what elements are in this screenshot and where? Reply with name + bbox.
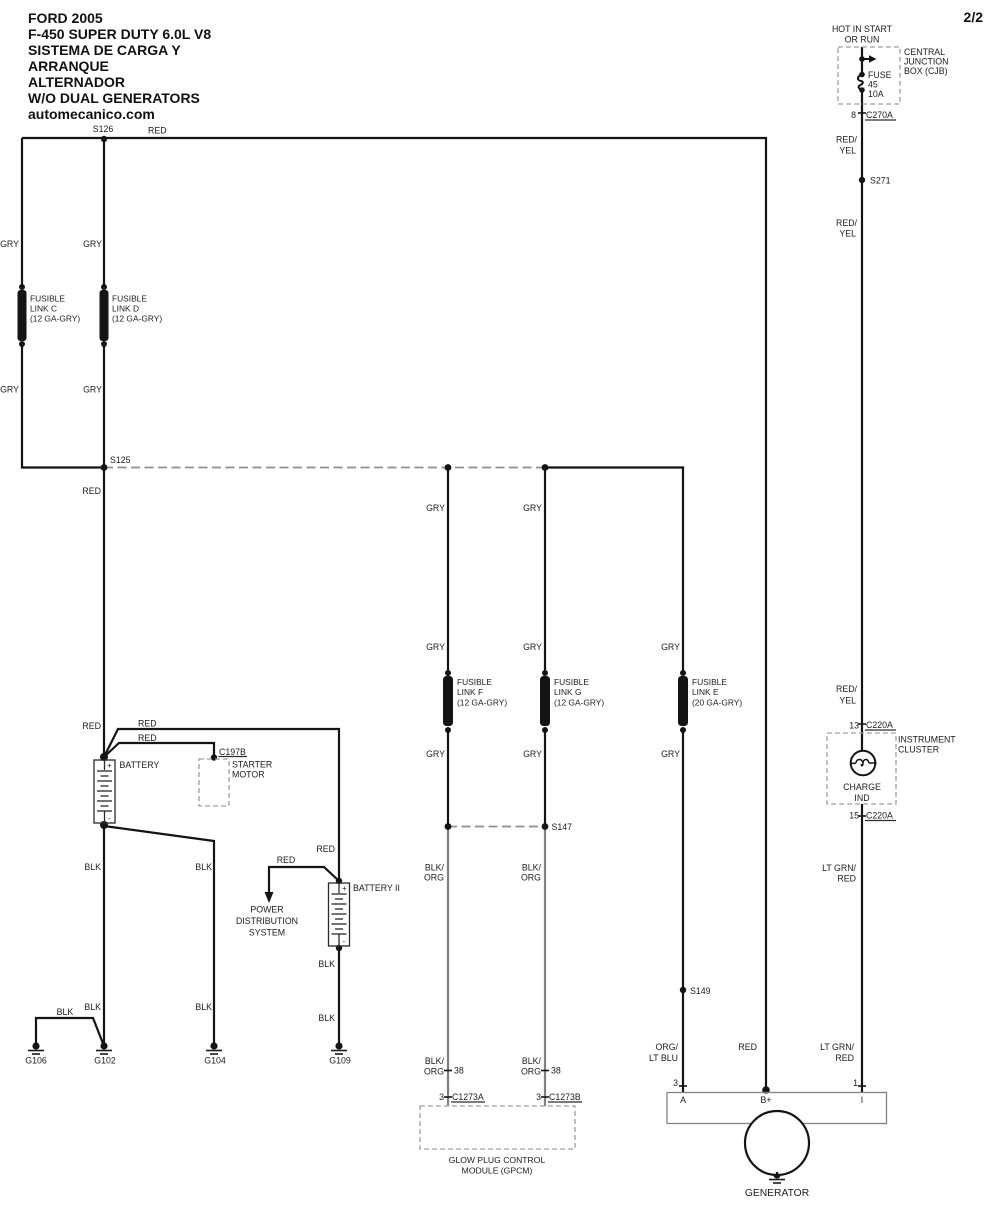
svg-text:GRY: GRY — [523, 503, 542, 513]
svg-text:10A: 10A — [868, 89, 884, 99]
svg-text:ALTERNADOR: ALTERNADOR — [28, 74, 125, 90]
svg-text:(12 GA-GRY): (12 GA-GRY) — [112, 314, 162, 324]
svg-text:G104: G104 — [204, 1056, 226, 1066]
svg-text:(20 GA-GRY): (20 GA-GRY) — [692, 698, 742, 708]
svg-text:45: 45 — [868, 80, 878, 90]
svg-text:(12 GA-GRY): (12 GA-GRY) — [30, 314, 80, 324]
svg-text:YEL: YEL — [839, 146, 856, 156]
svg-text:GRY: GRY — [661, 749, 680, 759]
svg-text:S271: S271 — [870, 176, 891, 186]
svg-text:(12 GA-GRY): (12 GA-GRY) — [554, 698, 604, 708]
svg-text:FUSIBLE: FUSIBLE — [30, 294, 65, 304]
svg-text:RED: RED — [837, 874, 856, 884]
svg-text:GRY: GRY — [426, 749, 445, 759]
svg-text:GRY: GRY — [0, 239, 19, 249]
svg-text:S149: S149 — [690, 986, 711, 996]
svg-text:GRY: GRY — [426, 503, 445, 513]
svg-text:BATTERY: BATTERY — [120, 760, 160, 770]
svg-text:GLOW PLUG CONTROL: GLOW PLUG CONTROL — [449, 1155, 546, 1165]
svg-text:G109: G109 — [329, 1056, 351, 1066]
svg-text:S126: S126 — [93, 124, 114, 134]
svg-text:ORG: ORG — [521, 1067, 541, 1077]
svg-text:INSTRUMENT: INSTRUMENT — [898, 735, 956, 745]
svg-text:BLK: BLK — [318, 1013, 335, 1023]
svg-text:W/O DUAL GENERATORS: W/O DUAL GENERATORS — [28, 90, 200, 106]
svg-text:GRY: GRY — [83, 385, 102, 395]
svg-text:F-450 SUPER DUTY 6.0L V8: F-450 SUPER DUTY 6.0L V8 — [28, 26, 211, 42]
svg-text:FUSE: FUSE — [868, 70, 892, 80]
svg-text:BLK/: BLK/ — [425, 863, 445, 873]
svg-text:3: 3 — [536, 1092, 541, 1102]
svg-text:LT BLU: LT BLU — [649, 1053, 678, 1063]
svg-text:BLK: BLK — [195, 1002, 212, 1012]
svg-text:SYSTEM: SYSTEM — [249, 928, 285, 938]
svg-text:CHARGE: CHARGE — [843, 782, 881, 792]
svg-text:G106: G106 — [25, 1056, 47, 1066]
svg-text:GRY: GRY — [83, 239, 102, 249]
svg-text:OR RUN: OR RUN — [845, 35, 880, 45]
svg-text:CLUSTER: CLUSTER — [898, 745, 939, 755]
svg-text:RED: RED — [138, 719, 157, 729]
svg-text:BLK: BLK — [84, 1002, 101, 1012]
svg-text:YEL: YEL — [839, 696, 856, 706]
svg-text:LT GRN/: LT GRN/ — [820, 1042, 854, 1052]
svg-text:G102: G102 — [94, 1056, 116, 1066]
svg-text:BOX (CJB): BOX (CJB) — [904, 66, 948, 76]
svg-text:RED: RED — [148, 126, 167, 136]
svg-text:C197B: C197B — [219, 747, 246, 757]
svg-text:FUSIBLE: FUSIBLE — [554, 677, 589, 687]
svg-text:S147: S147 — [552, 822, 573, 832]
svg-text:LINK F: LINK F — [457, 687, 483, 697]
svg-text:3: 3 — [673, 1078, 678, 1088]
svg-text:BLK: BLK — [57, 1007, 74, 1017]
svg-text:(12 GA-GRY): (12 GA-GRY) — [457, 698, 507, 708]
svg-text:RED: RED — [316, 844, 335, 854]
svg-text:POWER: POWER — [250, 905, 283, 915]
svg-text:GRY: GRY — [661, 642, 680, 652]
svg-text:RED: RED — [835, 1053, 854, 1063]
svg-text:LT GRN/: LT GRN/ — [822, 863, 856, 873]
svg-text:DISTRIBUTION: DISTRIBUTION — [236, 916, 298, 926]
svg-text:ORG: ORG — [424, 873, 444, 883]
svg-text:IND: IND — [854, 793, 869, 803]
svg-text:GENERATOR: GENERATOR — [745, 1188, 809, 1199]
svg-text:C1273B: C1273B — [549, 1092, 581, 1102]
svg-text:FUSIBLE: FUSIBLE — [112, 294, 147, 304]
svg-text:S125: S125 — [110, 455, 131, 465]
svg-text:-: - — [343, 937, 346, 946]
svg-text:FORD 2005: FORD 2005 — [28, 10, 103, 26]
svg-text:CENTRAL: CENTRAL — [904, 47, 945, 57]
svg-text:YEL: YEL — [839, 229, 856, 239]
svg-text:RED: RED — [138, 733, 157, 743]
svg-text:BLK/: BLK/ — [425, 1056, 445, 1066]
svg-text:I: I — [861, 1095, 863, 1105]
svg-text:GRY: GRY — [426, 642, 445, 652]
svg-text:RED: RED — [82, 721, 101, 731]
svg-text:LINK D: LINK D — [112, 304, 139, 314]
svg-text:BLK: BLK — [84, 862, 101, 872]
svg-text:ORG: ORG — [424, 1067, 444, 1077]
svg-text:BLK/: BLK/ — [522, 863, 542, 873]
svg-text:+: + — [342, 884, 347, 893]
svg-text:RED/: RED/ — [836, 684, 858, 694]
svg-text:FUSIBLE: FUSIBLE — [457, 677, 492, 687]
svg-text:38: 38 — [454, 1066, 464, 1076]
svg-text:SISTEMA DE CARGA Y: SISTEMA DE CARGA Y — [28, 42, 181, 58]
svg-text:A: A — [680, 1095, 686, 1105]
svg-text:RED: RED — [82, 486, 101, 496]
svg-text:3: 3 — [439, 1092, 444, 1102]
svg-text:BLK: BLK — [318, 959, 335, 969]
svg-text:LINK G: LINK G — [554, 687, 581, 697]
svg-text:MODULE (GPCM): MODULE (GPCM) — [462, 1166, 533, 1176]
svg-text:LINK E: LINK E — [692, 687, 719, 697]
svg-text:STARTER: STARTER — [232, 760, 272, 770]
svg-text:BLK/: BLK/ — [522, 1056, 542, 1066]
svg-text:-: - — [108, 814, 111, 823]
svg-text:38: 38 — [551, 1066, 561, 1076]
svg-text:FUSIBLE: FUSIBLE — [692, 677, 727, 687]
svg-text:B+: B+ — [760, 1095, 771, 1105]
svg-text:LINK C: LINK C — [30, 304, 57, 314]
svg-text:JUNCTION: JUNCTION — [904, 57, 948, 67]
svg-text:RED: RED — [738, 1042, 757, 1052]
svg-text:C1273A: C1273A — [452, 1092, 484, 1102]
svg-text:RED: RED — [277, 855, 296, 865]
svg-text:RED/: RED/ — [836, 218, 858, 228]
svg-text:C220A: C220A — [866, 720, 893, 730]
svg-text:8: 8 — [851, 110, 856, 120]
svg-text:C220A: C220A — [866, 811, 893, 821]
svg-text:13: 13 — [849, 721, 859, 731]
svg-text:ARRANQUE: ARRANQUE — [28, 58, 109, 74]
svg-text:+: + — [107, 761, 112, 770]
svg-text:2/2: 2/2 — [964, 9, 984, 25]
svg-text:GRY: GRY — [0, 385, 19, 395]
svg-text:ORG/: ORG/ — [656, 1042, 679, 1052]
svg-text:1: 1 — [853, 1078, 858, 1088]
svg-text:BATTERY II: BATTERY II — [353, 883, 400, 893]
svg-text:HOT IN START: HOT IN START — [832, 24, 893, 34]
svg-text:MOTOR: MOTOR — [232, 770, 265, 780]
svg-text:ORG: ORG — [521, 873, 541, 883]
svg-text:C270A: C270A — [866, 110, 893, 120]
svg-text:RED/: RED/ — [836, 135, 858, 145]
svg-text:automecanico.com: automecanico.com — [28, 106, 155, 122]
svg-text:GRY: GRY — [523, 749, 542, 759]
svg-text:BLK: BLK — [195, 862, 212, 872]
svg-text:GRY: GRY — [523, 642, 542, 652]
svg-text:15: 15 — [849, 811, 859, 821]
